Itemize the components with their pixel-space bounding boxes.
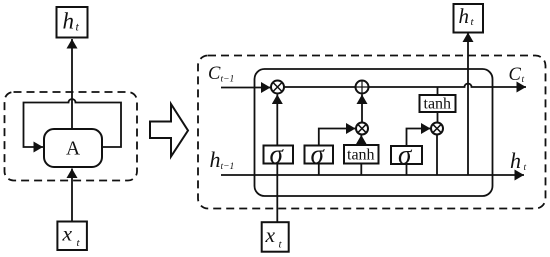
gate tanh (candidate) — [344, 145, 379, 164]
dashed container (LSTM cell) — [198, 56, 546, 209]
block A — [44, 129, 102, 167]
inner rounded frame — [255, 69, 493, 196]
multiply node (output gate product) — [431, 123, 443, 135]
svg-text:h: h — [210, 147, 221, 172]
wire: tanh box down to output multiply — [437, 112, 439, 123]
wire: sigma2 to input multiply — [318, 164, 320, 176]
gate sigma2 (input) — [305, 139, 334, 169]
wire C: add to C_t with hop over h-branch — [369, 84, 527, 88]
box h_t (left output) — [57, 7, 88, 38]
box x_t (right input) — [262, 222, 289, 252]
box x_t (left input) — [57, 222, 87, 251]
wire C: multiply to add — [284, 86, 356, 88]
svg-text:t−1: t−1 — [221, 162, 235, 172]
svg-text:tanh: tanh — [347, 147, 375, 164]
wire C: C_t-1 into forget multiply — [221, 87, 271, 89]
svg-text:C: C — [208, 64, 221, 84]
svg-text:t−1: t−1 — [221, 75, 235, 85]
label C_t-1 — [208, 64, 234, 85]
svg-text:h: h — [459, 4, 470, 28]
svg-text:h: h — [63, 9, 75, 34]
wire: sigma1 up into forget multiply — [276, 95, 278, 146]
wire: tanh gate into input multiply — [360, 164, 362, 176]
svg-text:h: h — [510, 148, 521, 173]
wire h: h_t-1 baseline to output arrow — [221, 174, 524, 176]
dashed container (left recurrent cell) — [5, 92, 138, 181]
svg-text:x: x — [62, 222, 73, 246]
big hollow arrow — [150, 104, 188, 157]
add node — [356, 81, 369, 94]
svg-text:σ: σ — [398, 140, 413, 170]
svg-text:C: C — [509, 65, 522, 85]
gate sigma1 (forget) — [264, 139, 294, 169]
wire: sigma4 to output multiply — [406, 164, 408, 175]
svg-text:t: t — [522, 75, 525, 85]
label h_t-1 — [210, 147, 235, 172]
wire: input multiply up into add — [361, 95, 363, 123]
label C_t — [509, 65, 525, 85]
wire: output multiply down to h line — [436, 135, 438, 176]
wire: x_t into A (arrow up) — [71, 169, 73, 222]
svg-text:A: A — [66, 139, 80, 160]
wire: x_t up to forget gate sigma — [276, 164, 278, 223]
multiply node (forget gate product) — [271, 81, 284, 94]
svg-text:σ: σ — [270, 139, 285, 169]
svg-text:t: t — [524, 163, 527, 173]
tanh output box — [420, 95, 456, 113]
recurrent loop wire with hop over vertical — [24, 99, 122, 147]
box h_t (right output) — [454, 4, 484, 33]
svg-text:x: x — [265, 223, 276, 247]
wire: A to h_t (arrow up) — [71, 39, 73, 129]
gate sigma4 (output) — [391, 140, 422, 170]
multiply node (input gate product) — [356, 123, 368, 135]
wire: C line down into tanh box — [437, 87, 439, 95]
label h_t (right edge) — [510, 148, 527, 173]
svg-text:tanh: tanh — [424, 96, 452, 113]
wire: h branch up to h_t box — [467, 33, 469, 176]
